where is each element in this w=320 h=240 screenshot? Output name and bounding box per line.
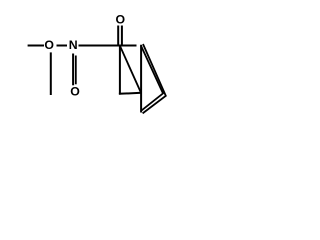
bond CH3-O (methyl to ether oxygen) xyxy=(28,45,44,47)
svg-text:N: N xyxy=(69,38,78,52)
cage bond diagonal xyxy=(120,46,141,93)
cage leaf outer stroke xyxy=(143,44,166,113)
bond N-C chain (horizontal to cage) xyxy=(79,45,137,47)
cage bond bottom horizontal xyxy=(119,93,142,94)
double bond N=O2 (two vertical strokes below N) xyxy=(72,54,74,86)
svg-text:O: O xyxy=(70,84,80,98)
cage leaf inner stroke xyxy=(141,46,163,111)
bond O1-CH3 (vertical methyl below O1) xyxy=(50,52,52,95)
double bond C=O3 (two vertical strokes up to carbonyl oxygen) xyxy=(117,26,119,46)
cage bond vertical center (apex to bottom tip) xyxy=(140,45,142,113)
svg-text:O: O xyxy=(116,12,126,26)
bond O1-N xyxy=(57,45,68,47)
cage bond vertical left xyxy=(119,46,121,95)
svg-text:O: O xyxy=(44,38,54,52)
